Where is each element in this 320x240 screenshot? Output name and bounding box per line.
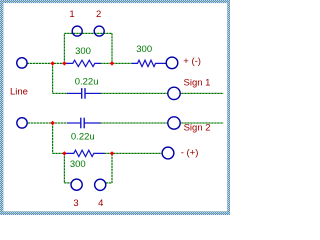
junction J4: [50, 121, 54, 125]
wire: R1 out to R2 in: [101, 62, 132, 64]
svg-text:- (+): - (+): [181, 147, 199, 158]
wire: line2 terminal row: [28, 122, 68, 124]
svg-text:Sign 2: Sign 2: [184, 122, 211, 133]
wire: to R3 junction: [53, 152, 66, 154]
jumper 4: [95, 179, 106, 190]
junction J5: [62, 151, 66, 155]
svg-text:4: 4: [98, 198, 103, 209]
junction J2: [62, 61, 66, 65]
wire: stub to jumper 3: [64, 182, 70, 184]
wire: R3 out to minus terminal: [105, 152, 163, 154]
terminal + (-): [166, 57, 178, 69]
jumper 2: [94, 26, 104, 36]
wire: branch right up: [111, 153, 113, 183]
resistor R3 300 (shunt): [65, 150, 105, 156]
wire: jumper branch top: [64, 32, 112, 34]
jumper 1: [72, 26, 82, 36]
svg-text:300: 300: [75, 46, 91, 57]
terminal Sign 2: [168, 117, 180, 129]
resistor R1 300: [66, 60, 101, 66]
svg-text:300: 300: [136, 44, 152, 55]
wire: line terminal to R1: [27, 62, 67, 64]
terminal Line 2: [17, 118, 27, 128]
wire: J2 up to jumper branch: [63, 33, 65, 63]
svg-text:3: 3: [73, 198, 78, 209]
svg-text:Sign 1: Sign 1: [184, 78, 211, 89]
wire: cap row to Sign 1 and beyond: [101, 92, 224, 94]
svg-text:2: 2: [96, 9, 101, 20]
border frame (checkered): [0, 0, 230, 215]
terminal - (+): [162, 147, 174, 159]
wire: J4 down: [52, 123, 54, 153]
wire: branch left down: [63, 153, 65, 183]
terminal Line 1: [17, 58, 27, 68]
capacitor C2 0.22u: [67, 118, 101, 129]
svg-text:Line: Line: [10, 86, 28, 97]
wire: cap row left: [53, 92, 68, 94]
wire: J1 down to cap row: [52, 63, 54, 93]
junction J3: [110, 61, 114, 65]
svg-text:+ (-): + (-): [183, 56, 201, 67]
svg-text:1: 1: [69, 9, 74, 20]
wire: cap2 row to Sign 2 and beyond: [101, 122, 224, 124]
svg-text:300: 300: [70, 159, 86, 170]
jumper 3: [71, 179, 82, 190]
resistor R2 300 (series): [132, 60, 166, 66]
junction J6: [110, 151, 114, 155]
svg-text:0.22u: 0.22u: [71, 132, 95, 143]
svg-text:0.22u: 0.22u: [75, 77, 99, 88]
terminal Sign 1: [168, 87, 180, 99]
wire: stub from jumper 4: [106, 182, 112, 184]
wire: branch right down: [111, 33, 113, 63]
junction J1: [50, 61, 54, 65]
capacitor C1 0.22u: [67, 88, 101, 99]
